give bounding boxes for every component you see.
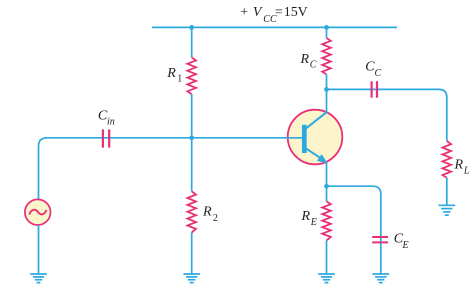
svg-text:R: R xyxy=(454,157,464,172)
ground below RE xyxy=(318,274,335,283)
transistor Q1 emitter arrowhead xyxy=(317,154,328,163)
AC source Vs xyxy=(25,199,51,225)
wire top rail Vcc xyxy=(152,26,397,28)
svg-text:15: 15 xyxy=(284,5,298,20)
node rail-R1 junction dot xyxy=(189,25,194,30)
svg-text:V: V xyxy=(298,5,308,20)
svg-text:E: E xyxy=(310,217,317,228)
svg-text:=: = xyxy=(275,5,283,20)
node rail-RC junction dot xyxy=(324,25,329,30)
svg-text:R: R xyxy=(300,52,310,67)
svg-text:L: L xyxy=(463,165,470,176)
resistor RC xyxy=(322,38,331,74)
svg-text:V: V xyxy=(253,5,263,20)
resistor RE xyxy=(322,201,331,240)
svg-text:C: C xyxy=(375,68,382,79)
wire R1 branch top stub xyxy=(191,27,193,57)
capacitor CC xyxy=(372,81,377,97)
wire collector node to CC and right corner down to RL xyxy=(327,89,447,141)
transistor Q1 emitter stroke xyxy=(306,148,322,159)
svg-text:R: R xyxy=(301,209,311,224)
node collector junction dot xyxy=(324,87,329,92)
wire RC branch stub from rail xyxy=(326,27,328,38)
resistor R1 xyxy=(187,58,196,95)
resistor R2 xyxy=(187,191,196,232)
transistor Q1 base bar xyxy=(302,125,307,153)
ground below R2 xyxy=(183,274,200,283)
wire emitter down xyxy=(326,162,328,202)
svg-text:C: C xyxy=(310,59,317,70)
svg-text:in: in xyxy=(107,116,115,127)
wire emitter node to CE branch xyxy=(327,186,381,243)
wire R2 branch xyxy=(191,138,193,274)
node emitter junction dot xyxy=(324,184,329,189)
transistor Q1 body xyxy=(288,110,343,165)
capacitor Cin xyxy=(103,129,109,147)
svg-text:R: R xyxy=(202,205,212,220)
wire RE bottom xyxy=(326,240,328,274)
wire R1 bottom to input node xyxy=(191,94,193,138)
resistor RL xyxy=(443,141,452,178)
wire source bottom xyxy=(38,225,40,274)
svg-text:2: 2 xyxy=(213,213,218,224)
wire CE bottom xyxy=(380,243,382,274)
capacitor CE xyxy=(372,237,388,242)
ground below CE xyxy=(373,274,390,283)
node input junction dot xyxy=(189,135,194,140)
ground below AC source xyxy=(30,274,47,283)
wire RL bottom xyxy=(446,178,448,206)
svg-text:E: E xyxy=(402,240,409,251)
svg-text:R: R xyxy=(166,66,176,81)
transistor Q1 collector stroke xyxy=(306,112,328,129)
svg-text:+: + xyxy=(240,5,248,20)
svg-text:1: 1 xyxy=(177,73,182,84)
wire RC bottom to collector xyxy=(326,74,328,112)
ground below RL xyxy=(439,205,456,215)
wire input horizontal with left rounded corner down to source xyxy=(39,138,303,200)
